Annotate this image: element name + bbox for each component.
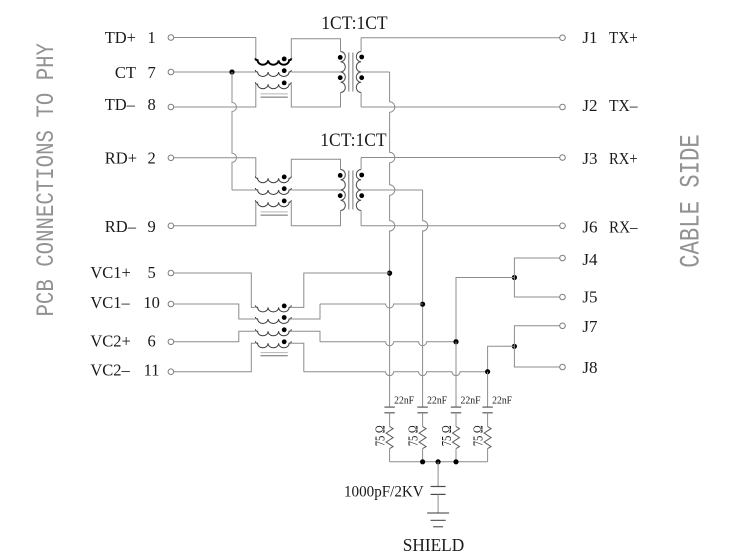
svg-text:TD–: TD– xyxy=(105,95,136,114)
svg-text:1CT:1CT: 1CT:1CT xyxy=(320,130,387,151)
svg-text:J8: J8 xyxy=(582,358,597,377)
svg-text:J2: J2 xyxy=(582,96,597,115)
svg-text:SHIELD: SHIELD xyxy=(403,535,464,555)
svg-text:75 Ω: 75 Ω xyxy=(374,425,389,446)
svg-text:8: 8 xyxy=(147,95,155,114)
svg-text:J4: J4 xyxy=(582,250,598,269)
svg-text:RD+: RD+ xyxy=(105,148,137,167)
svg-text:TX–: TX– xyxy=(609,96,638,115)
svg-text:VC1–: VC1– xyxy=(90,293,130,312)
svg-text:J7: J7 xyxy=(582,317,598,336)
svg-text:22nF: 22nF xyxy=(461,395,481,406)
svg-text:11: 11 xyxy=(144,361,160,380)
svg-text:75 Ω: 75 Ω xyxy=(407,425,422,446)
svg-text:75 Ω: 75 Ω xyxy=(440,425,455,446)
svg-text:22nF: 22nF xyxy=(492,395,512,406)
svg-text:1000pF/2KV: 1000pF/2KV xyxy=(344,482,424,500)
svg-text:9: 9 xyxy=(147,217,155,236)
svg-text:2: 2 xyxy=(147,148,155,167)
svg-text:CT: CT xyxy=(115,63,136,82)
svg-text:22nF: 22nF xyxy=(394,395,414,406)
svg-text:J3: J3 xyxy=(582,149,597,168)
svg-text:J6: J6 xyxy=(582,217,597,236)
svg-text:5: 5 xyxy=(147,263,155,282)
svg-text:TD+: TD+ xyxy=(105,28,136,47)
svg-text:TX+: TX+ xyxy=(609,28,638,47)
svg-text:10: 10 xyxy=(143,293,160,312)
svg-text:J5: J5 xyxy=(582,288,597,307)
svg-text:1CT:1CT: 1CT:1CT xyxy=(321,13,388,34)
svg-text:VC2+: VC2+ xyxy=(90,331,130,350)
svg-text:PCB CONNECTIONS TO PHY: PCB CONNECTIONS TO PHY xyxy=(32,43,61,317)
svg-text:VC2–: VC2– xyxy=(90,361,130,380)
svg-text:VC1+: VC1+ xyxy=(90,263,130,282)
svg-text:CABLE SIDE: CABLE SIDE xyxy=(676,134,707,268)
svg-text:RX+: RX+ xyxy=(609,149,638,168)
svg-text:75 Ω: 75 Ω xyxy=(472,425,487,446)
svg-text:7: 7 xyxy=(147,63,155,82)
svg-text:6: 6 xyxy=(147,331,155,350)
svg-text:1: 1 xyxy=(147,28,155,47)
svg-text:RD–: RD– xyxy=(105,217,137,236)
svg-text:J1: J1 xyxy=(582,28,597,47)
svg-text:22nF: 22nF xyxy=(427,395,447,406)
svg-text:RX–: RX– xyxy=(609,217,638,236)
